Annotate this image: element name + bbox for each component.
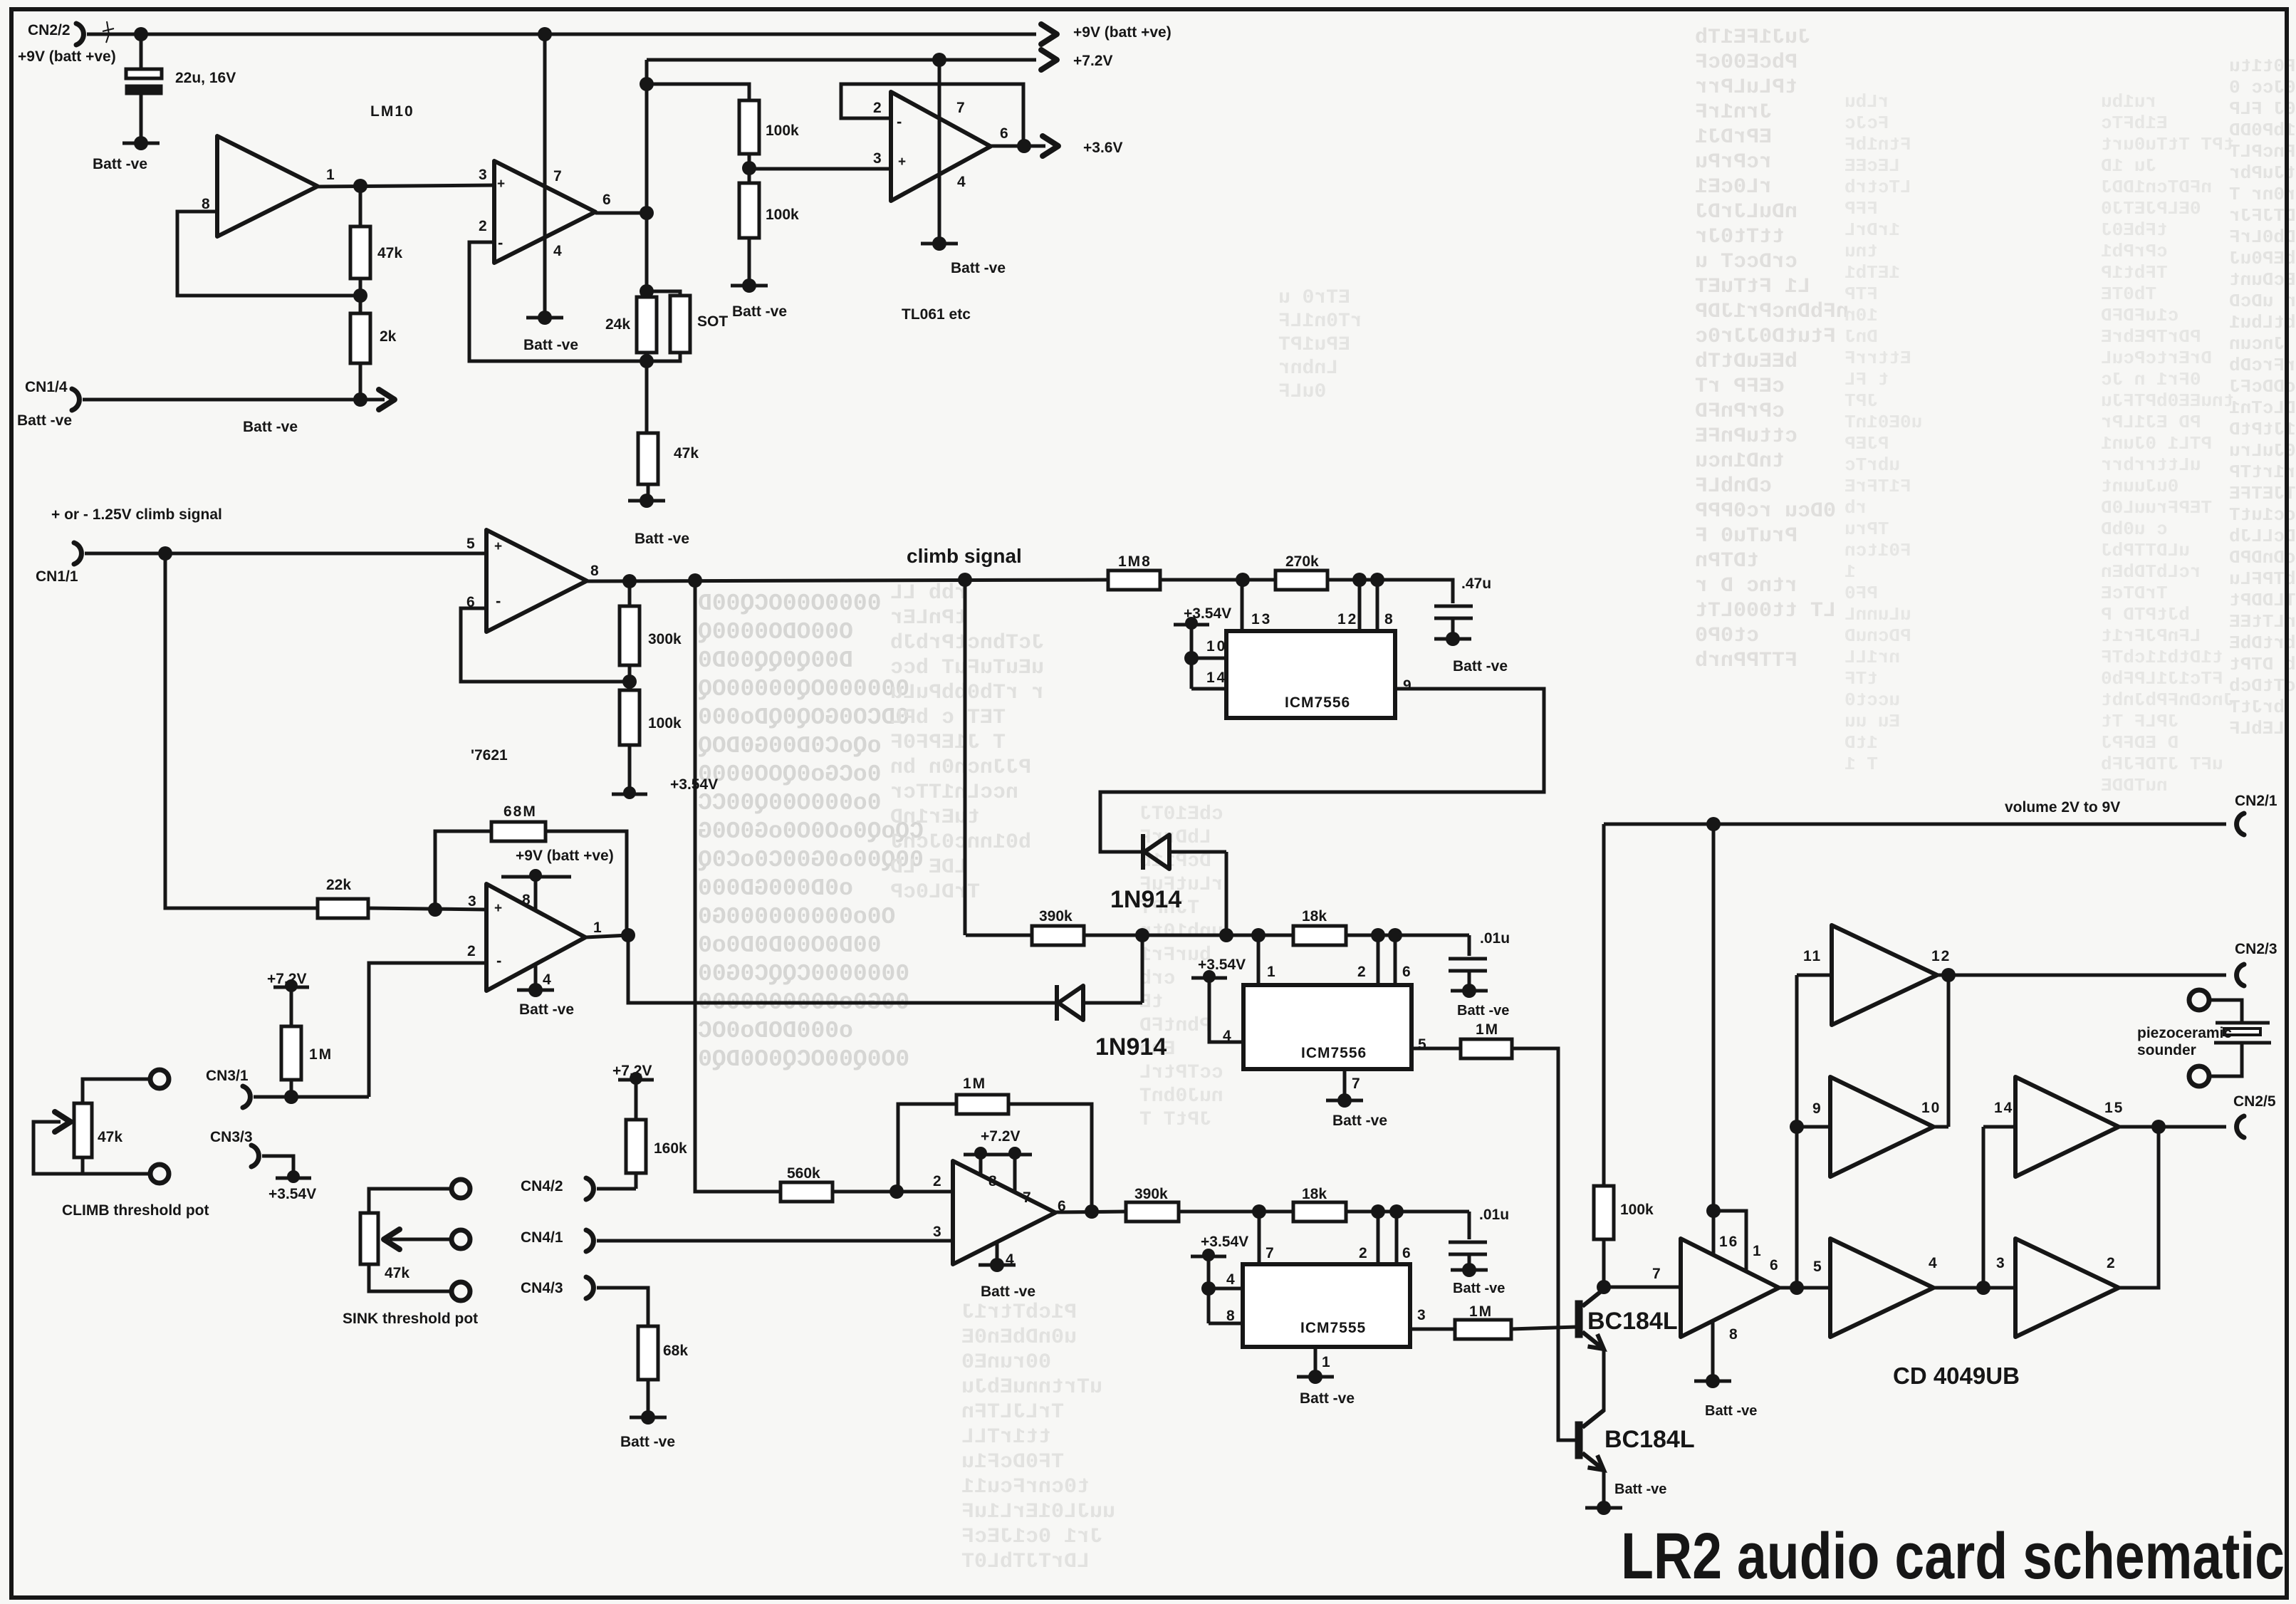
pin 6 stub (U7): [1395, 1212, 1399, 1264]
svg-text:2: 2: [933, 1173, 941, 1189]
svg-text:t1Dtb11cbTF: t1Dtb11cbTF: [2101, 647, 2223, 668]
wire CN1/1 down to 22k: [165, 553, 318, 908]
svg-text:16: 16: [1719, 1234, 1738, 1250]
svg-text:2: 2: [2107, 1255, 2115, 1271]
arrow Batt-ve out: [360, 398, 385, 402]
node 9 input: [1790, 1120, 1804, 1134]
svg-text:T J1EPF0F: T J1EPF0F: [890, 731, 1006, 755]
wire CN3/1 to U3b pin2: [254, 1095, 369, 1099]
inverter U8c (pins 9-10): [1830, 1077, 1934, 1177]
svg-text:CN1/4: CN1/4: [25, 379, 68, 395]
svg-text:CQoQ0oO0O0oG0O0G: CQoQ0oO0O0oG0O0G: [698, 818, 924, 845]
svg-text:cPrPnFD: cPrPnFD: [1695, 400, 1785, 424]
node U8b out: [1941, 968, 1956, 982]
svg-text:FTc1J1LPFb0: FTc1J1LPFb0: [2101, 668, 2223, 689]
svg-text:nuTDDE: nuTDDE: [2101, 775, 2168, 796]
svg-text:Lnbnr: Lnbnr: [1278, 358, 1338, 380]
node +7.2V TL061 pin7: [932, 53, 946, 67]
node 100k branch: [640, 77, 654, 91]
svg-text:O0o000000000G0: O0o000000000G0: [698, 904, 895, 930]
svg-text:18k: 18k: [1302, 1186, 1327, 1202]
svg-text:47k: 47k: [98, 1129, 122, 1145]
svg-text:+7.2V: +7.2V: [981, 1128, 1020, 1145]
svg-text:CLIMB threshold pot: CLIMB threshold pot: [62, 1202, 209, 1219]
arrow +9V out: [1041, 24, 1057, 44]
svg-text:PTL1 0Jun1: PTL1 0Jun1: [2101, 433, 2212, 454]
svg-text:EPrDJ1: EPrDJ1: [1695, 125, 1772, 150]
svg-text:3: 3: [479, 167, 487, 183]
svg-text:+ or - 1.25V climb signal: + or - 1.25V climb signal: [51, 506, 222, 523]
svg-text:cbE10TJ: cbE10TJ: [1139, 803, 1223, 826]
svg-text:cPrPb1: cPrPb1: [2101, 241, 2168, 262]
node 24k/SOT bottom: [640, 354, 654, 368]
svg-text:Jr1 0c1JEcF: Jr1 0c1JEcF: [961, 1525, 1102, 1549]
svg-text:crb: crb: [1139, 968, 1175, 990]
ground Batt-ve (U2 pin4): [932, 236, 946, 251]
svg-text:7: 7: [1266, 1245, 1274, 1261]
inverter U8a (pins 7-6): [1681, 1239, 1779, 1337]
wire +9V rail: [87, 33, 1036, 36]
svg-text:rT0n1LF: rT0n1LF: [1278, 311, 1362, 333]
resistor 24k: [645, 291, 649, 297]
node divider: [353, 288, 367, 303]
svg-text:CN2/2: CN2/2: [28, 22, 71, 38]
resistor 1M (U5 pin5): [1461, 1039, 1512, 1058]
svg-text:nuJ0bnT: nuJ0bnT: [1139, 1085, 1223, 1108]
inverter U8b (pins 11-12): [1832, 925, 1937, 1025]
wire U8b out to CN2/3: [1937, 974, 2226, 977]
ground Batt-ve (U1b pin4): [538, 311, 552, 325]
svg-text:68M: 68M: [503, 803, 537, 820]
node pin7 junction (U7): [1252, 1204, 1266, 1219]
svg-text:Batt -ve: Batt -ve: [635, 531, 689, 547]
svg-text:ICM7555: ICM7555: [1300, 1320, 1366, 1336]
connector CN2/5: [2237, 1116, 2244, 1137]
svg-text:300k: 300k: [648, 631, 682, 647]
svg-text:10: 10: [1206, 638, 1227, 655]
connector CN1/1: [74, 543, 81, 564]
svg-text:8: 8: [522, 892, 531, 908]
svg-text:.47u: .47u: [1461, 576, 1491, 592]
wire 390k row: [966, 934, 1032, 937]
svg-text:PDrTPEbrE: PDrTPEbrE: [2101, 326, 2201, 348]
svg-text:0o000O00Q00CC: 0o000O00Q00CC: [698, 790, 881, 816]
svg-text:rb: rb: [1844, 497, 1867, 519]
wire volume to 100k: [1602, 824, 1606, 1186]
svg-text:7: 7: [956, 100, 965, 116]
node U3b out/68M: [621, 928, 635, 942]
wire 1M to Q2 base: [1512, 1048, 1576, 1440]
wire U3a pin6 feedback: [461, 608, 630, 682]
wire 560k to U6 pin2: [833, 1190, 953, 1194]
svg-text:+3.54V: +3.54V: [1198, 957, 1246, 973]
svg-text:sounder: sounder: [2137, 1042, 2196, 1058]
wire 1M8 to 270k: [1160, 578, 1275, 582]
svg-text:Ftn1bF: Ftn1bF: [1844, 134, 1911, 155]
pin 8 stub: [1376, 580, 1379, 631]
svg-text:+: +: [494, 901, 502, 916]
capacitor .01u (sink): [1449, 1241, 1487, 1244]
svg-text:+7.2V: +7.2V: [1073, 53, 1112, 69]
svg-text:3: 3: [1996, 1255, 2005, 1271]
svg-text:CN2/1: CN2/1: [2235, 793, 2277, 809]
svg-text:bJtPTD P: bJtPTD P: [2101, 604, 2190, 625]
wire U6 output: [1055, 1212, 1126, 1212]
svg-text:4: 4: [543, 972, 551, 988]
svg-text:+: +: [497, 177, 505, 192]
pin 2 stub (U7): [1377, 1212, 1380, 1264]
svg-text:1M: 1M: [963, 1076, 986, 1092]
resistor 100k (lower): [748, 168, 751, 183]
svg-text:JncDnFPbJnbt: JncDnFPbJnbt: [2101, 689, 2234, 711]
ground Batt-ve (U5 pin7): [1337, 1093, 1352, 1108]
svg-text:rL0cE1: rL0cE1: [1695, 175, 1772, 199]
svg-text:1M: 1M: [309, 1046, 333, 1063]
svg-text:rLbu: rLbu: [1844, 91, 1889, 113]
svg-text:T 1: T 1: [1844, 754, 1878, 775]
wire Q1 emitter to Q2 collector: [1602, 1349, 1606, 1412]
svg-text:climb signal: climb signal: [907, 545, 1022, 567]
svg-text:Batt -ve: Batt -ve: [732, 303, 787, 320]
svg-text:t FL: t FL: [1844, 369, 1889, 390]
svg-text:Batt -ve: Batt -ve: [1457, 1003, 1509, 1019]
svg-text:1: 1: [1322, 1354, 1330, 1370]
arrow +3.6V out: [1024, 145, 1045, 148]
resistor 47k (to Batt-ve): [645, 361, 649, 433]
node 300k/100k: [622, 675, 637, 689]
diode D2 1N914 wire from U3b output: [628, 935, 1055, 1003]
svg-text:Batt -ve: Batt -ve: [620, 1434, 675, 1450]
wire 11 input: [1797, 974, 1832, 977]
svg-text:uFT JTDFJFb: uFT JTDFJFb: [2101, 754, 2223, 775]
svg-text:PF0: PF0: [1844, 583, 1878, 604]
wire volume rail: [1604, 823, 2226, 826]
node pin8 junction: [1370, 573, 1384, 587]
wire U8d out: [1934, 1286, 2015, 1290]
diode D2 1N914: [1055, 985, 1059, 1021]
svg-text:1: 1: [1753, 1243, 1761, 1259]
svg-text:D EDFPJ: D EDFPJ: [2101, 732, 2178, 754]
svg-text:8: 8: [988, 1173, 997, 1189]
wire U1b output to +7.2V rail: [595, 212, 647, 215]
svg-text:2: 2: [1359, 1245, 1367, 1261]
svg-text:uLttrrbrr: uLttrrbrr: [2101, 454, 2201, 476]
ground Batt-ve (47k): [640, 494, 654, 508]
pin 4 stub + ground (U3b): [534, 964, 538, 989]
svg-text:100k: 100k: [766, 123, 799, 139]
svg-text:9: 9: [1403, 677, 1411, 694]
svg-text:1: 1: [326, 167, 335, 183]
wire U1b pin2 loop: [469, 242, 647, 361]
svg-text:crDccT u: crDccT u: [1695, 250, 1797, 274]
svg-text:6: 6: [602, 192, 611, 208]
svg-text:+3.54V: +3.54V: [670, 776, 718, 793]
ground Batt-ve (100k divider): [742, 278, 756, 293]
op-amp U1b LM10 main: [494, 161, 595, 263]
ground Batt-ve (.47u): [1446, 632, 1460, 646]
wire 1M to Q1 base: [1511, 1327, 1576, 1329]
resistor 18k (sink osc): [1293, 1202, 1346, 1222]
svg-text:+: +: [494, 539, 502, 554]
svg-text:5: 5: [1418, 1036, 1426, 1053]
svg-text:6: 6: [1000, 125, 1008, 142]
svg-text:tnuEE0bPTFJu: tnuEE0bPTFJu: [2101, 390, 2234, 412]
svg-text:22k: 22k: [326, 877, 351, 893]
svg-text:rbb LL: rbb LL: [890, 581, 967, 605]
svg-text:+3.6V: +3.6V: [1083, 140, 1122, 156]
svg-text:14: 14: [1206, 670, 1227, 686]
svg-text:CD 4049UB: CD 4049UB: [1893, 1363, 2020, 1389]
wire CN1/4 Batt-ve: [83, 398, 360, 402]
svg-text:F01tcn: F01tcn: [1844, 540, 1911, 561]
pin 8 stub + ground (U8): [1711, 1321, 1715, 1380]
svg-text:1tD: 1tD: [1844, 732, 1878, 754]
svg-text:piezoceramic: piezoceramic: [2137, 1025, 2232, 1041]
connector CN2/2: [76, 24, 83, 45]
svg-text:tnD1ncu: tnD1ncu: [1695, 449, 1785, 474]
svg-text:cEFP rT: cEFP rT: [1695, 375, 1785, 399]
svg-text:TF0DcF1u: TF0DcF1u: [961, 1450, 1064, 1474]
svg-text:0O0Q00OCQ0O0DQ0: 0O0Q00OCQ0O0DQ0: [698, 1046, 909, 1073]
inverter U8f (pins 3-2): [2015, 1239, 2119, 1337]
svg-text:0uJuunt: 0uJuunt: [2101, 476, 2178, 497]
svg-text:100k: 100k: [648, 715, 682, 731]
svg-text:100k: 100k: [1620, 1202, 1654, 1218]
inverter U8e (pins 14-15): [2015, 1077, 2119, 1177]
svg-text:rcPrPu: rcPrPu: [1695, 150, 1772, 175]
svg-text:ccTPtrL: ccTPtrL: [1139, 1062, 1223, 1084]
svg-text:-: -: [498, 234, 503, 251]
node pin6 junction: [1388, 928, 1402, 942]
wire U8a out: [1779, 1286, 1830, 1290]
svg-text:u0nDbEn0E: u0nDbEn0E: [961, 1326, 1077, 1350]
svg-text:1M: 1M: [1469, 1303, 1493, 1320]
svg-text:390k: 390k: [1039, 908, 1073, 925]
resistor SOT: [647, 291, 680, 296]
svg-text:JPtT T: JPtT T: [1139, 1109, 1211, 1131]
svg-text:uTrtnnuEbJu: uTrtnnuEbJu: [961, 1375, 1102, 1400]
svg-text:0Dcu rc0PPP: 0Dcu rc0PPP: [1695, 499, 1836, 524]
wire paralleled outputs 12/10: [1947, 975, 1951, 1127]
pin 4 stub + ground (U6): [996, 1242, 999, 1264]
node 22k/68M junction: [428, 902, 442, 917]
ground Batt-ve (.01u sink): [1462, 1263, 1476, 1277]
svg-text:14: 14: [1994, 1100, 2013, 1116]
svg-text:BC184L: BC184L: [1587, 1308, 1678, 1335]
pin 1 stub + ground (U7): [1314, 1347, 1317, 1375]
svg-text:1: 1: [593, 920, 602, 936]
svg-text:ucct0: ucct0: [1844, 689, 1900, 711]
svg-text:E1bFTc: E1bFTc: [2101, 113, 2168, 134]
capacitor .01u (climb): [1449, 957, 1487, 961]
svg-text:+: +: [898, 155, 906, 170]
node U8e out: [2151, 1120, 2166, 1134]
svg-text:7: 7: [1352, 1076, 1360, 1092]
svg-text:tt1rTLL: tt1rTLL: [961, 1425, 1051, 1449]
svg-text:tnu: tnu: [1844, 241, 1878, 262]
connector CN4/3: [586, 1277, 593, 1298]
svg-text:unb10tn: unb10tn: [1139, 921, 1223, 943]
svg-text:0Fr1 n Jc: 0Fr1 n Jc: [2101, 369, 2201, 390]
resistor 390k (sink osc): [1126, 1202, 1179, 1222]
svg-text:Eu uu: Eu uu: [1844, 711, 1900, 732]
resistor 100k (to +3.54V): [628, 682, 632, 690]
wire U3b output: [585, 935, 628, 937]
node 24k/SOT top: [640, 284, 654, 298]
svg-text:PruTu0 F: PruTu0 F: [1695, 524, 1797, 548]
svg-text:tTF: tTF: [1844, 668, 1878, 689]
transistor Q2 BC184L (lower): [1575, 1422, 1582, 1459]
node U8a out: [1790, 1281, 1804, 1295]
svg-text:1: 1: [1844, 561, 1856, 583]
svg-text:8: 8: [1384, 611, 1393, 627]
resistor 47k (LM10 divider top): [359, 186, 362, 226]
node pin12 junction: [1352, 573, 1367, 587]
ground Batt-ve (Q2): [1597, 1501, 1611, 1515]
node 300k tap: [622, 574, 637, 588]
inverter U8d (pins 5-4): [1830, 1239, 1934, 1337]
svg-text:3: 3: [468, 893, 476, 910]
node CN1/4 junction: [353, 392, 367, 407]
piezoceramic sounder: [2189, 990, 2209, 1010]
svg-text:TL061 etc: TL061 etc: [902, 306, 971, 323]
node pin1 junction: [1251, 928, 1266, 942]
power +3.54V (CN3/3): [287, 1170, 300, 1183]
svg-text:24k: 24k: [605, 316, 630, 333]
wire Q2 emitter to ground: [1602, 1470, 1606, 1506]
svg-text:CN4/3: CN4/3: [521, 1280, 563, 1296]
svg-text:PJJncn0n bn: PJJncn0n bn: [890, 756, 1031, 780]
resistor 560k: [781, 1182, 833, 1202]
pin 5 stub + wire: [1411, 1047, 1461, 1051]
pin 7 stub (U7): [1258, 1212, 1261, 1264]
svg-text:1N914: 1N914: [1095, 1033, 1167, 1061]
svg-text:11: 11: [1803, 948, 1822, 964]
pin 3 stub (U7): [1410, 1328, 1455, 1331]
svg-text:-: -: [897, 113, 902, 130]
svg-text:u0E01nT: u0E01nT: [1844, 412, 1922, 433]
ink scratch artifact: [103, 21, 114, 43]
wire 22k to U3b pin3: [368, 908, 486, 910]
svg-text:ubrTc: ubrTc: [1844, 454, 1900, 476]
node U1b output: [640, 206, 654, 220]
svg-text:1: 1: [1267, 964, 1275, 980]
svg-text:'7621: '7621: [471, 747, 508, 764]
ground Batt-ve (.01u): [1462, 984, 1476, 998]
svg-text:0000000CQQC0G00: 0000000CQQC0G00: [698, 961, 909, 987]
node pin16/1 tie: [1706, 1204, 1721, 1218]
svg-text:Batt -ve: Batt -ve: [1300, 1390, 1355, 1407]
svg-text:CN2/5: CN2/5: [2233, 1093, 2276, 1110]
svg-text:-: -: [496, 592, 501, 610]
svg-text:0DCO0GOQ0QDo000: 0DCO0GOQ0QDo000: [698, 704, 909, 731]
svg-text:13: 13: [1251, 611, 1272, 627]
svg-text:BC184L: BC184L: [1604, 1426, 1695, 1453]
potentiometer SINK 47k: [452, 1179, 470, 1198]
svg-text:ICM7556: ICM7556: [1301, 1045, 1367, 1061]
svg-text:390k: 390k: [1134, 1186, 1168, 1202]
connector CN2/3: [2237, 964, 2244, 986]
svg-text:Batt -ve: Batt -ve: [1332, 1113, 1387, 1129]
svg-text:0uLF: 0uLF: [1278, 381, 1326, 403]
wire 14 input riser: [1982, 1127, 1985, 1288]
svg-text:68k: 68k: [663, 1343, 688, 1359]
svg-text:Batt -ve: Batt -ve: [519, 1001, 574, 1018]
diode D1 1N914: [1141, 834, 1145, 870]
node pin6 junction (U7): [1389, 1204, 1404, 1219]
svg-text:rtnc D r: rtnc D r: [1695, 574, 1797, 598]
power +3.54V (climb divider): [623, 786, 636, 799]
svg-text:CN4/2: CN4/2: [521, 1178, 563, 1194]
svg-text:LT tt000LTt: LT tt000LTt: [1695, 599, 1836, 623]
svg-text:JuJ1FE1Tb: JuJ1FE1Tb: [1695, 26, 1810, 50]
node U1a out / 47k: [353, 179, 367, 193]
svg-text:100k: 100k: [766, 207, 799, 223]
svg-text:TPru: TPru: [1844, 519, 1889, 540]
svg-text:DrErtcPcuL: DrErtcPcuL: [2101, 348, 2212, 369]
svg-text:1M8: 1M8: [1118, 553, 1152, 570]
svg-text:1rDrL: 1rDrL: [1844, 219, 1900, 241]
node +9V pin7 junction: [538, 27, 552, 41]
svg-text:LM10: LM10: [370, 103, 414, 120]
svg-text:O00ODO0000Q: O00ODO0000Q: [698, 619, 853, 645]
svg-text:Batt -ve: Batt -ve: [951, 260, 1006, 276]
wire U3a output / climb signal node: [587, 580, 1108, 581]
wire CN3/3 to +3.54V: [262, 1156, 293, 1175]
op-amp U3b 7621 (CLIMB comparator): [486, 884, 585, 991]
wire parallel input riser: [1795, 975, 1799, 1288]
svg-text:47k: 47k: [385, 1265, 409, 1281]
resistor 160k: [626, 1120, 646, 1173]
op-amp U6 comparator (vario sink): [953, 1161, 1055, 1264]
svg-text:rcLbTDbEn: rcLbTDbEn: [2101, 561, 2201, 583]
resistor 390k (climb): [1032, 926, 1084, 945]
svg-text:FcJc: FcJc: [1844, 113, 1889, 134]
svg-text:ct0P0: ct0P0: [1695, 624, 1759, 648]
node D1 junction: [1219, 928, 1233, 942]
svg-text:.01u: .01u: [1479, 1207, 1509, 1223]
wire CN1/1 to U3 pin5: [85, 552, 486, 556]
ground Batt-ve (22u cap): [134, 136, 148, 150]
node volume/CD4049 supply: [1706, 817, 1721, 831]
svg-text:CN1/1: CN1/1: [36, 568, 78, 585]
svg-text:r rTb0bbPuLu: r rTb0bbPuLu: [890, 681, 1044, 705]
wire U1a pin8 feedback: [177, 212, 360, 296]
wire U2 output: [991, 145, 1023, 148]
svg-text:FTP: FTP: [1844, 283, 1878, 305]
svg-text:270k: 270k: [1285, 553, 1319, 570]
node U2 output: [1017, 139, 1031, 153]
svg-text:SINK threshold pot: SINK threshold pot: [343, 1311, 478, 1327]
svg-text:TrLJLTFn: TrLJLTFn: [961, 1400, 1064, 1425]
resistor 18k (climb osc): [1293, 926, 1346, 945]
svg-text:LEcEE: LEcEE: [1844, 155, 1900, 177]
svg-text:PJEP: PJEP: [1844, 433, 1889, 454]
svg-text:JPLF Tt: JPLF Tt: [2101, 711, 2178, 732]
svg-text:560k: 560k: [787, 1165, 820, 1182]
svg-text:3: 3: [873, 150, 882, 167]
IC U5 ICM7556 (second half): [1243, 985, 1411, 1069]
svg-text:00Q00o0G00C0oC0Q: 00Q00o0G00C0oC0Q: [698, 847, 924, 873]
resistor 22k: [318, 899, 368, 918]
connector CN4/1: [586, 1230, 593, 1251]
pin 9 loop wire: [1100, 689, 1544, 852]
svg-text:+9V (batt +ve): +9V (batt +ve): [1073, 24, 1172, 41]
node 100k mid: [742, 161, 756, 175]
node D2 junction: [1135, 928, 1149, 942]
svg-text:-: -: [496, 952, 501, 969]
svg-text:TrDTcE: TrDTcE: [2101, 583, 2168, 604]
